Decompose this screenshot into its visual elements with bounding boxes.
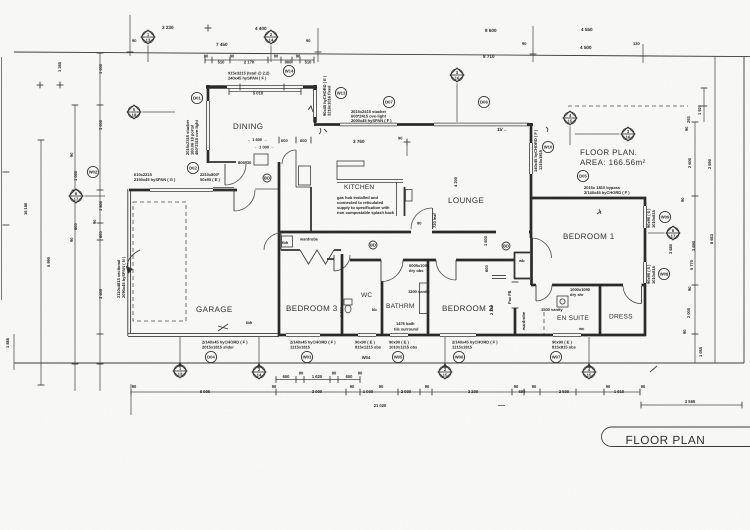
right dim line B <box>701 88 708 122</box>
top tick cross 130 <box>127 51 134 53</box>
room label DINING <box>233 122 263 131</box>
wall north mid cap <box>397 123 434 126</box>
svg-text:17: 17 <box>74 197 79 202</box>
svg-text:tile surround: tile surround <box>394 327 419 332</box>
svg-text:D02: D02 <box>189 166 197 171</box>
left x75 text 1 000 <box>73 170 78 181</box>
door label D05 <box>577 170 588 181</box>
kitchen appliance box <box>406 190 413 202</box>
setback dashed line <box>568 105 688 107</box>
svg-text:600: 600 <box>98 231 103 238</box>
note dining west rotated <box>185 119 199 155</box>
svg-text:815x815 obs: 815x815 obs <box>552 345 577 350</box>
title bar <box>602 427 750 447</box>
svg-text:BATHRM: BATHRM <box>386 303 415 310</box>
left text 1 285 <box>57 61 62 72</box>
svg-text:EN SUITE: EN SUITE <box>557 315 589 322</box>
right dim line A <box>692 122 699 363</box>
svg-text:90: 90 <box>641 384 646 389</box>
wall wc east x382 <box>381 281 384 336</box>
dim y60 text 90c <box>274 54 279 59</box>
dining dim 1 600 <box>247 137 267 142</box>
svg-text:3 000: 3 000 <box>98 119 103 130</box>
svg-text:2 600: 2 600 <box>687 157 692 168</box>
bath window note <box>409 263 430 273</box>
svg-text:510: 510 <box>305 60 313 65</box>
room label BEDROOM 2 <box>442 304 494 313</box>
svg-text:dry shr: dry shr <box>570 292 584 297</box>
svg-text:18: 18 <box>132 113 137 118</box>
svg-text:15’←: 15’← <box>497 127 508 132</box>
note window W08 size <box>646 264 656 284</box>
svg-text:3 000: 3 000 <box>312 389 323 394</box>
svg-text:GARAGE: GARAGE <box>196 305 233 314</box>
door label D04 <box>205 351 216 362</box>
svg-text:2 690: 2 690 <box>707 158 712 169</box>
lounge door arc <box>411 208 433 229</box>
bd circle entry <box>263 174 271 182</box>
svg-text:14: 14 <box>269 38 274 43</box>
label 806930 <box>238 160 252 165</box>
title FLOOR PLAN AREA <box>580 148 646 167</box>
svg-text:W07: W07 <box>552 355 561 360</box>
svg-text:3 690: 3 690 <box>691 240 696 251</box>
garage cross mark <box>218 324 228 331</box>
kitchen bench lower <box>337 180 403 183</box>
bath note <box>394 321 419 332</box>
bedroom3 door arc <box>264 233 281 250</box>
hall dim 600 <box>484 265 489 272</box>
window label W02 <box>87 166 98 177</box>
svg-text:W09: W09 <box>661 215 670 220</box>
bottom note w06 <box>452 340 498 350</box>
svg-text:2 000: 2 000 <box>686 307 691 318</box>
svg-text:90: 90 <box>306 38 311 43</box>
svg-text:D07: D07 <box>385 100 393 105</box>
svg-text:D04: D04 <box>207 355 215 360</box>
svg-text:600: 600 <box>73 223 78 230</box>
right dim text 90 a <box>684 126 689 131</box>
door label D01 <box>191 92 202 103</box>
left x75 text 90 <box>69 152 74 157</box>
wall dining east (window W13) <box>314 85 317 123</box>
svg-text:W14: W14 <box>285 69 294 74</box>
svg-text:1010x815: 1010x815 <box>651 265 656 284</box>
right dim text 293 <box>686 116 691 123</box>
handwritten mark bed1 <box>597 209 601 214</box>
svg-text:1215x1815: 1215x1815 <box>290 345 311 350</box>
svg-text:1 000: 1 000 <box>363 389 374 394</box>
svg-text:90: 90 <box>92 219 97 224</box>
svg-text:2 000: 2 000 <box>401 389 412 394</box>
dining door arc <box>225 164 246 185</box>
wall bath east x428 <box>427 260 430 336</box>
right dim text 90 b <box>680 197 685 202</box>
svg-text:90: 90 <box>69 237 74 242</box>
svg-text:BD: BD <box>264 176 270 181</box>
top dim text 90 b <box>132 38 137 43</box>
top dim text 90 a <box>522 41 527 46</box>
window label W13 <box>335 87 346 98</box>
wall north mid y124 <box>314 123 340 126</box>
svg-text:1 620: 1 620 <box>312 374 323 379</box>
dim y60 text 510 <box>218 60 226 65</box>
svg-text:1200 vanity: 1200 vanity <box>408 289 430 294</box>
svg-text:BEDROOM 3: BEDROOM 3 <box>286 304 338 313</box>
svg-text:90: 90 <box>332 371 337 376</box>
ensuite vanity <box>543 312 545 334</box>
svg-text:130: 130 <box>633 41 640 46</box>
svg-text:1 920: 1 920 <box>697 104 702 115</box>
entry door arc <box>234 190 255 211</box>
svg-text:2 170: 2 170 <box>244 60 255 65</box>
svg-text:tbh: tbh <box>246 320 253 325</box>
svg-text:← 1 600 →: ← 1 600 → <box>247 137 267 142</box>
wall dining sill south <box>208 161 236 163</box>
svg-text:13: 13 <box>178 372 183 377</box>
right dim text 2 690 <box>707 158 712 169</box>
left x100 text 1 800 <box>98 200 103 211</box>
wall pantry x311 <box>296 150 311 232</box>
section marker 3/16 right <box>575 127 635 141</box>
kitchen bench upper <box>337 161 364 166</box>
dining dim 600 600 <box>279 137 311 144</box>
bottom note slider <box>202 340 248 350</box>
svg-text:W06: W06 <box>455 355 464 360</box>
left dim line x41 <box>38 140 45 385</box>
window label W05 <box>392 351 403 362</box>
handwritten mark lounge ne <box>546 127 548 132</box>
top tick x318 <box>317 28 319 62</box>
svg-text:600: 600 <box>484 265 489 272</box>
entry header line <box>255 188 279 190</box>
bottom note w04 <box>355 340 382 350</box>
wc door arc <box>334 255 350 271</box>
svg-text:3 585: 3 585 <box>685 399 696 404</box>
right dim text 8 663 <box>709 233 714 244</box>
room label BEDROOM 3 <box>286 304 338 313</box>
bedroom1 door arc <box>532 238 552 258</box>
svg-text:← 1 000 →: ← 1 000 → <box>254 145 274 150</box>
svg-text:WC: WC <box>361 292 372 299</box>
svg-text:wardrobe: wardrobe <box>521 311 526 331</box>
left edge mark a <box>3 171 10 173</box>
window label W09 <box>659 211 670 222</box>
note 720 leaf <box>417 213 437 228</box>
bed2 robe note <box>507 290 512 304</box>
left cross b <box>57 82 64 89</box>
note D02 size <box>200 172 220 182</box>
svg-text:90: 90 <box>358 371 363 376</box>
svg-text:16 180: 16 180 <box>23 202 28 215</box>
svg-text:600: 600 <box>300 138 307 143</box>
section marker 6/17 right <box>648 226 680 240</box>
entry door sidelight <box>213 188 234 191</box>
wall dining west <box>207 85 210 163</box>
svg-text:KITCHEN: KITCHEN <box>344 184 374 191</box>
marker line x445 <box>444 337 446 364</box>
door label D07 <box>383 96 394 107</box>
svg-text:3 680: 3 680 <box>668 243 673 254</box>
top dim text 4 500 <box>580 45 592 50</box>
marker line x180 <box>179 337 181 364</box>
svg-text:90: 90 <box>425 384 430 389</box>
wall ensuite north y285 <box>531 284 646 287</box>
site boundary top <box>14 52 750 57</box>
bed2 robe slider <box>492 276 506 279</box>
top dim text 8 600 <box>485 28 497 33</box>
svg-text:Pax FB: Pax FB <box>507 290 512 304</box>
svg-text:8 710: 8 710 <box>483 54 495 59</box>
svg-text:90: 90 <box>684 126 689 131</box>
window label W14 <box>283 65 294 76</box>
svg-text:kb: kb <box>372 307 377 312</box>
gas hob note <box>337 195 395 215</box>
svg-text:2 000: 2 000 <box>339 306 344 317</box>
bed3 dim 2 000 <box>339 306 344 317</box>
top tick cross 643 <box>640 55 647 57</box>
top dim text 7 450 <box>216 42 228 47</box>
dining dim 1 000 <box>254 145 274 150</box>
svg-text:dry obs: dry obs <box>409 268 424 273</box>
site boundary left stub <box>13 334 15 370</box>
top tick x643 <box>642 44 644 63</box>
note lounge window <box>533 129 543 172</box>
svg-text:W04: W04 <box>362 355 371 360</box>
svg-text:90: 90 <box>230 54 235 59</box>
top tick cross 318 <box>315 51 322 53</box>
note 3 680 <box>668 243 673 254</box>
handwritten tick dining <box>308 106 313 112</box>
bottom note w07 <box>552 340 577 350</box>
garage door note rotated <box>116 256 126 298</box>
bed2 door arc <box>436 260 456 280</box>
svg-text:tbh: tbh <box>282 240 289 245</box>
section marker 1/13 <box>141 30 155 62</box>
svg-text:2/140x45 hyCHORD ( F ): 2/140x45 hyCHORD ( F ) <box>584 190 630 195</box>
window label W07 <box>550 351 561 362</box>
right dim text 90 c <box>687 286 692 291</box>
svg-text:1010x1215 obs: 1010x1215 obs <box>389 345 418 350</box>
door label D02 <box>187 162 198 173</box>
section marker 2/15 bottom <box>438 363 452 379</box>
left x100 text 600 <box>98 231 103 238</box>
svg-text:W13: W13 <box>337 91 346 96</box>
bath vanity note <box>408 289 430 294</box>
svg-text:16: 16 <box>455 76 460 81</box>
right dim text 3 690 <box>691 240 696 251</box>
top tick cross 533 <box>530 53 537 55</box>
svg-text:15: 15 <box>587 373 592 378</box>
svg-text:90: 90 <box>296 54 301 59</box>
garage arrow <box>126 250 140 274</box>
section marker 1/13 bottom <box>173 362 187 378</box>
svg-text:90: 90 <box>132 38 137 43</box>
section marker 3/16 upper <box>450 68 464 122</box>
label wrobe left <box>282 236 293 247</box>
bottom right diag mark <box>650 366 657 372</box>
svg-text:900: 900 <box>285 60 293 65</box>
marker line x589 <box>588 337 590 364</box>
svg-text:3216x1016 fixed: 3216x1016 fixed <box>327 85 332 116</box>
left x100 text 90 <box>92 219 97 224</box>
pantry door arc <box>282 150 296 164</box>
note dining east rotated <box>322 75 332 116</box>
ensuite vanity note <box>541 307 563 312</box>
room label DRESS <box>609 314 633 321</box>
room label LOUNGE <box>448 196 484 205</box>
room label EN SUITE <box>557 315 589 322</box>
bed2 dim 2 350 <box>489 304 494 315</box>
svg-text:90: 90 <box>532 384 537 389</box>
svg-text:90: 90 <box>682 329 687 334</box>
left dim line x75 <box>72 105 79 391</box>
wall corridor north y232 <box>279 231 532 234</box>
dim y60 text 510b <box>305 60 313 65</box>
right dim text 2 000 <box>686 307 691 318</box>
svg-text:1500 vanity: 1500 vanity <box>541 307 563 312</box>
site boundary right <box>743 57 745 364</box>
svg-text:600: 600 <box>281 138 288 143</box>
svg-text:600: 600 <box>519 389 527 394</box>
svg-text:90: 90 <box>417 221 422 226</box>
svg-text:AREA: 166.56m²: AREA: 166.56m² <box>580 158 646 167</box>
wall bed2 east x516 <box>512 282 519 336</box>
svg-text:1 800: 1 800 <box>98 200 103 211</box>
svg-text:90: 90 <box>680 197 685 202</box>
svg-text:90: 90 <box>687 286 692 291</box>
scan edge left <box>1 57 3 300</box>
section marker 2/14 bottom <box>252 363 266 379</box>
top dim text 3 230 <box>162 25 174 30</box>
title text FLOOR PLAN <box>626 433 706 447</box>
marker line x259 <box>258 337 260 364</box>
left x100 text 1 000 <box>98 63 103 74</box>
top dim text 130 <box>633 41 640 46</box>
svg-text:3 200: 3 200 <box>468 389 479 394</box>
bottom dim line upper <box>276 376 360 383</box>
site boundary bottom <box>14 362 744 364</box>
svg-text:4 500: 4 500 <box>580 45 592 50</box>
left x41 text 16 180 <box>23 202 28 215</box>
svg-text:1 600: 1 600 <box>483 235 488 246</box>
top tick x130 <box>129 15 131 56</box>
entry closet <box>254 154 268 165</box>
svg-text:806930: 806930 <box>238 160 252 165</box>
dim y60 text 90d <box>296 54 301 59</box>
room label KITCHEN <box>344 184 374 191</box>
svg-text:90: 90 <box>204 54 209 59</box>
note stacker mid <box>351 109 392 123</box>
dress door arc <box>623 286 642 304</box>
svg-text:BEDROOM 1: BEDROOM 1 <box>563 232 615 241</box>
svg-text:1 285: 1 285 <box>57 61 62 72</box>
left dim line x100 <box>97 53 104 391</box>
dim y60 text 90b <box>230 54 235 59</box>
svg-text:90: 90 <box>132 384 137 389</box>
right dim text 1 920 <box>697 104 702 115</box>
dim y60 text 90 <box>204 54 209 59</box>
dim 3 760 <box>353 139 365 144</box>
svg-text:600: 600 <box>346 374 354 379</box>
dim y60 text 900 <box>285 60 293 65</box>
window strip north (W13) <box>340 123 397 126</box>
svg-text:460*2315 ove-light: 460*2315 ove-light <box>194 119 199 155</box>
wall bedroom1 east x645 <box>644 197 647 336</box>
window label W03 <box>301 351 312 362</box>
svg-text:293: 293 <box>686 116 691 123</box>
lintel note dining top <box>228 71 270 81</box>
ensuite wc <box>578 326 585 331</box>
svg-text:wb: wb <box>518 258 525 263</box>
label wardrobe top <box>299 237 319 242</box>
right dim text 2 600 <box>687 157 692 168</box>
section marker 4/15 right <box>563 111 577 145</box>
label bed2 wardrobe <box>521 311 526 331</box>
svg-text:D01: D01 <box>193 96 201 101</box>
wall south main <box>279 334 646 337</box>
svg-text:W03: W03 <box>303 355 312 360</box>
svg-text:FLOOR PLAN.: FLOOR PLAN. <box>580 148 637 157</box>
svg-text:5 010: 5 010 <box>253 91 264 96</box>
wall hall east x531 <box>530 238 533 285</box>
room label GARAGE <box>196 305 233 314</box>
top tick x533 <box>532 26 534 62</box>
kitchen cupboard box <box>299 166 311 185</box>
note window W09 size <box>646 208 656 228</box>
kitchen bench left edge <box>336 166 338 180</box>
wall bedroom1 north y198 <box>531 197 646 200</box>
svg-text:BD: BD <box>503 244 509 249</box>
wall lounge east x531 <box>530 123 533 238</box>
room label BATHRM <box>386 303 415 310</box>
garage car space dashed <box>133 202 186 321</box>
svg-text:2 350: 2 350 <box>489 304 494 315</box>
svg-text:50x90 ( E ): 50x90 ( E ) <box>200 177 220 182</box>
room label WC <box>361 292 372 299</box>
svg-text:720 leaf: 720 leaf <box>432 213 437 228</box>
right dim text 1 055 <box>698 346 703 357</box>
left x100 text 3 405 <box>98 288 103 299</box>
svg-text:510: 510 <box>218 60 226 65</box>
right dim text 90 d <box>682 329 687 334</box>
svg-text:600: 600 <box>283 374 291 379</box>
svg-text:17: 17 <box>671 234 676 239</box>
window label W04 <box>362 355 371 360</box>
top cross mark <box>205 25 212 32</box>
label tbh <box>246 320 253 325</box>
room label BEDROOM 1 <box>563 232 615 241</box>
svg-text:1 000: 1 000 <box>98 63 103 74</box>
bottom dim line main <box>131 389 640 396</box>
bd circle hall <box>502 242 510 250</box>
window label W10 <box>542 141 553 152</box>
svg-text:4 200: 4 200 <box>453 176 458 187</box>
note bedroom1 bypass <box>584 185 630 195</box>
svg-text:4 550: 4 550 <box>581 27 593 32</box>
svg-text:3 760: 3 760 <box>353 139 365 144</box>
hall linen closet <box>514 252 530 279</box>
svg-text:90: 90 <box>69 152 74 157</box>
top dim text 8 710 <box>483 54 495 59</box>
svg-text:3 230: 3 230 <box>162 25 174 30</box>
svg-text:5 990: 5 990 <box>46 256 51 267</box>
dining interior dim 5 010 <box>229 88 301 95</box>
svg-text:90: 90 <box>274 54 279 59</box>
wall wardrobe south y250 <box>281 249 341 251</box>
wall south garage (double) <box>128 334 279 337</box>
note W02 size <box>134 172 176 182</box>
